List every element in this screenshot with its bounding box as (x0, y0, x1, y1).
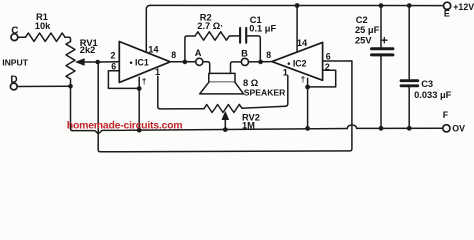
wire R1 to RV1 top (65, 37, 71, 41)
svg-text:†: † (301, 74, 306, 84)
capacitor C2 lead top (380, 6, 382, 47)
svg-text:2k2: 2k2 (80, 45, 96, 55)
svg-text:F: F (443, 110, 449, 120)
svg-text:14: 14 (297, 38, 308, 48)
resistor R1 (26, 33, 66, 41)
wire IC1 loop node down to rail (138, 88, 140, 130)
svg-text:14: 14 (148, 44, 159, 54)
feedback bottom wire IC1 pin2 node to IC2 pin6 (98, 61, 352, 152)
junction RV2 wiper on rail (223, 127, 228, 132)
svg-text:+12V: +12V (453, 2, 474, 12)
wire IC1 output to node A (170, 61, 195, 63)
terminal F (443, 125, 450, 132)
svg-text:8: 8 (171, 50, 176, 60)
terminal E (444, 2, 451, 9)
wire RV2 to IC2 pin 1 (242, 76, 288, 109)
wire IC2 loop node down to rail (307, 87, 309, 128)
svg-text:C3: C3 (421, 79, 433, 89)
wire node A to node B (203, 61, 241, 63)
svg-text:6: 6 (326, 52, 331, 62)
speaker cone (200, 82, 244, 94)
node B (241, 58, 248, 65)
IC2 pin 14 wire (296, 6, 298, 52)
capacitor C1 (240, 28, 246, 43)
svg-text:C2: C2 (356, 15, 368, 25)
wire node B to IC2 (249, 61, 272, 63)
svg-text:2: 2 (325, 62, 330, 72)
IC2 pin 6 wire (323, 60, 352, 62)
junction C3 on rail (407, 126, 412, 131)
capacitor C3 plates (401, 79, 418, 82)
op-amp IC1 (119, 42, 170, 83)
potentiometer RV1 (66, 42, 75, 80)
wire node A to speaker (203, 62, 210, 74)
junction on rail at IC2 (305, 126, 310, 131)
RV2 wiper arrow (224, 119, 226, 129)
junction R2 branch left (183, 60, 188, 65)
junction C3 on +12V rail (407, 3, 412, 8)
junction C1 branch right (258, 60, 263, 65)
svg-text:OV: OV (452, 124, 465, 134)
wire speaker to node B (231, 62, 242, 74)
IC2 loop node (305, 85, 310, 90)
svg-text:2.7 Ω·: 2.7 Ω· (197, 21, 223, 31)
IC1 pin 6 loop (108, 71, 139, 89)
svg-text:2: 2 (111, 51, 116, 61)
R2 branch riser left (185, 36, 195, 62)
wire D to RV1 bottom (17, 85, 70, 87)
junction C2 on +12V rail (379, 3, 384, 8)
IC1 pin 14 wire to +12V rail (146, 5, 150, 52)
terminal C (11, 34, 18, 41)
svg-text:25 μF: 25 μF (355, 25, 380, 35)
capacitor C2 lead bottom (380, 56, 382, 128)
IC2 loop stub to body (307, 78, 309, 87)
junction C2 on rail (379, 126, 384, 131)
wire RV1 down to ground rail (71, 79, 73, 131)
svg-text:B: B (241, 48, 248, 58)
ground rail right to F (357, 127, 443, 129)
wire C to R1 (18, 36, 26, 38)
speaker magnet (209, 73, 235, 82)
junction on rail at IC1 (137, 128, 142, 133)
svg-text:0.033 μF: 0.033 μF (414, 90, 452, 100)
svg-text:1M: 1M (242, 120, 255, 130)
junction pin14 on +12V rail (295, 3, 300, 8)
node junction RV1 bottom (68, 84, 73, 89)
capacitor C2 plates (372, 47, 393, 50)
svg-text:INPUT: INPUT (2, 58, 29, 68)
RV1 wiper arrow (84, 61, 98, 63)
capacitor C3 lead bottom (408, 87, 410, 128)
node junction wiper (95, 60, 100, 65)
ground rail left with hop over vertical (73, 129, 348, 134)
IC1 loop node (137, 86, 142, 91)
svg-text:C: C (11, 25, 18, 36)
svg-text:E: E (444, 9, 450, 19)
+12V top rail (150, 4, 443, 6)
svg-text:25V: 25V (355, 35, 372, 45)
svg-text:A: A (195, 48, 202, 58)
resistor R2 (195, 32, 229, 40)
op-amp IC2 (272, 42, 323, 80)
C1 branch riser right (247, 36, 260, 62)
wire wiper to IC1 pin 2 (98, 61, 120, 63)
svg-text:0.1 μF: 0.1 μF (249, 23, 276, 33)
svg-text:6: 6 (111, 62, 116, 72)
IC1 pin 1 wire down (158, 76, 204, 109)
svg-text:8: 8 (266, 50, 271, 60)
node A (196, 58, 203, 65)
terminal D (10, 83, 17, 90)
svg-text:10k: 10k (35, 21, 51, 31)
svg-text:• IC1: • IC1 (130, 57, 149, 67)
svg-text:SPEAKER: SPEAKER (244, 88, 286, 98)
svg-text:†: † (142, 76, 147, 86)
svg-text:• IC2: • IC2 (287, 58, 306, 68)
svg-text:homemade-circuits.com: homemade-circuits.com (67, 120, 183, 132)
svg-text:1: 1 (155, 67, 160, 77)
svg-text:D: D (10, 75, 17, 86)
C2 polarity plus (382, 38, 387, 43)
wire R2 to C1 (229, 35, 239, 37)
IC2 pin 2 loop (308, 70, 336, 87)
IC1 pin 6 loop stub to body (138, 77, 140, 88)
capacitor C3 lead top (408, 6, 410, 79)
svg-text:1: 1 (283, 67, 288, 77)
ground rail hop right (347, 125, 356, 128)
potentiometer RV2 (204, 104, 242, 112)
